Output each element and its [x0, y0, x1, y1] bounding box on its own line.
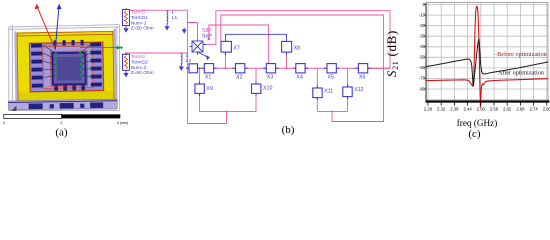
svg-text:2.56: 2.56 [490, 106, 499, 111]
svg-text:TermG2: TermG2 [131, 60, 148, 66]
svg-text:–Before optimization: –Before optimization [493, 51, 547, 58]
svg-text:-40: -40 [419, 44, 426, 49]
svg-text:Z=50 Ohm: Z=50 Ohm [131, 70, 154, 76]
svg-text:-80: -80 [419, 86, 426, 91]
svg-text:0: 0 [3, 121, 5, 125]
svg-text:Num=1: Num=1 [131, 20, 147, 26]
svg-text:(b): (b) [282, 124, 295, 136]
svg-text:2.80: 2.80 [543, 106, 550, 111]
svg-text:X6: X6 [359, 75, 366, 81]
svg-text:X10: X10 [263, 85, 272, 91]
svg-text:-30: -30 [419, 34, 426, 39]
svg-text:-60: -60 [419, 65, 426, 70]
svg-text:L: L [172, 10, 175, 16]
svg-text:X1: X1 [205, 75, 212, 81]
svg-text:-70: -70 [419, 76, 426, 81]
svg-text:2.74: 2.74 [530, 106, 539, 111]
svg-text:X8: X8 [294, 45, 301, 51]
svg-text:L1: L1 [172, 15, 178, 21]
svg-text:2: 2 [61, 121, 63, 125]
svg-text:-20: -20 [419, 23, 426, 28]
svg-text:2.62: 2.62 [503, 106, 512, 111]
svg-text:X11: X11 [324, 89, 333, 95]
svg-text:(c): (c) [468, 128, 481, 140]
svg-text:TermG: TermG [131, 10, 146, 16]
svg-text:L: L [186, 53, 189, 59]
svg-text:After optimization: After optimization [498, 69, 544, 76]
svg-text:X4: X4 [296, 75, 303, 81]
svg-text:-10: -10 [419, 12, 426, 17]
svg-text:X12: X12 [354, 87, 363, 93]
svg-text:X9: X9 [206, 86, 213, 92]
svg-text:(a): (a) [55, 127, 68, 139]
svg-text:2.38: 2.38 [450, 106, 459, 111]
svg-text:X7: X7 [233, 45, 240, 51]
svg-text:2.26: 2.26 [424, 106, 433, 111]
svg-text:X3: X3 [267, 75, 274, 81]
svg-text:TermG: TermG [131, 54, 146, 60]
svg-text:2.32: 2.32 [437, 106, 446, 111]
svg-text:X5: X5 [328, 75, 335, 81]
svg-text:SnP: SnP [202, 33, 212, 39]
svg-text:4 (mm): 4 (mm) [117, 121, 128, 125]
svg-text:-50: -50 [419, 55, 426, 60]
svg-text:freq (GHz): freq (GHz) [457, 118, 498, 128]
svg-text:TermG1: TermG1 [131, 15, 148, 21]
svg-text:S21 (dB): S21 (dB) [384, 30, 400, 77]
svg-text:Num=2: Num=2 [131, 65, 147, 71]
svg-text:2.68: 2.68 [516, 106, 525, 111]
svg-text:2.44: 2.44 [464, 106, 473, 111]
svg-text:Z=50 Ohm: Z=50 Ohm [131, 26, 154, 32]
svg-text:2.50: 2.50 [477, 106, 486, 111]
svg-text:X2: X2 [236, 75, 243, 81]
svg-text:L2: L2 [186, 58, 192, 64]
